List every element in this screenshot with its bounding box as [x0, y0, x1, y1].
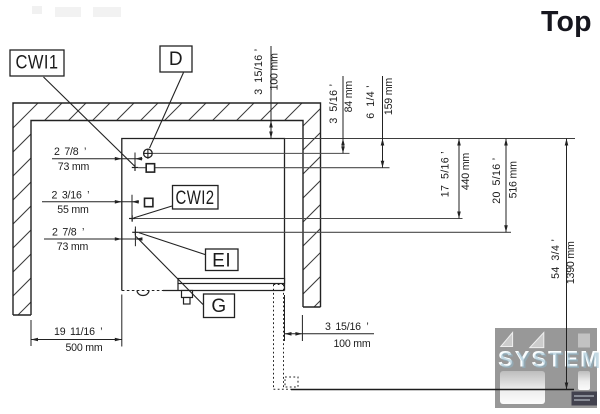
appliance foot bump: [137, 291, 149, 296]
svg-text:19 11/16 ’: 19 11/16 ’: [54, 326, 102, 338]
svg-text:440 mm: 440 mm: [460, 153, 472, 190]
dim 440mm vertical: [458, 139, 460, 219]
watermark triangle 1: [501, 333, 513, 347]
dim 1390mm vertical: [566, 139, 568, 390]
front bar left leg: [177, 284, 179, 291]
svg-text:CWI1: CWI1: [16, 53, 59, 74]
svg-text:CWI2: CWI2: [176, 188, 215, 209]
gas nozzle upper: [182, 291, 193, 298]
supply line L3 cwi1: [138, 167, 389, 169]
faint header marks: [32, 6, 121, 17]
dim 73mm top line: [52, 158, 143, 160]
svg-text:54 3/4 ’: 54 3/4 ’: [550, 239, 562, 279]
svg-text:2 7/8 ’: 2 7/8 ’: [54, 146, 86, 158]
svg-text:D: D: [169, 49, 183, 70]
plus mark EI: [132, 229, 138, 235]
svg-text:3 15/16 ’: 3 15/16 ’: [325, 321, 369, 333]
svg-text:55 mm: 55 mm: [57, 204, 89, 216]
label box EI: [206, 249, 239, 272]
dashed outlet box: [285, 377, 298, 387]
svg-text:73 mm: 73 mm: [58, 161, 90, 173]
svg-text:2 3/16 ’: 2 3/16 ’: [52, 189, 90, 201]
leader CWI2: [134, 206, 173, 218]
leader EI: [139, 233, 207, 255]
supply line L1 top reference: [285, 138, 576, 140]
dashed duct top: [274, 284, 284, 286]
dim 159mm vertical: [382, 76, 384, 168]
dashed duct left: [273, 285, 275, 390]
supply line L4 cwi2: [135, 218, 462, 220]
svg-text:100 mm: 100 mm: [333, 338, 370, 350]
dim 100mm bottom line: [285, 333, 375, 335]
plus mark CWI1: [132, 164, 138, 170]
svg-text:100 mm: 100 mm: [269, 53, 281, 90]
svg-text:84 mm: 84 mm: [343, 81, 355, 113]
svg-text:Top: Top: [541, 6, 592, 38]
extension line wall right 100: [301, 315, 303, 341]
supply line L5 ei: [139, 231, 511, 233]
svg-text:516 mm: 516 mm: [508, 161, 520, 198]
appliance body: [122, 139, 285, 291]
extension line at 73mm top: [134, 153, 136, 172]
dim 84mm vertical: [342, 76, 344, 153]
extension line wall inner 500: [30, 320, 32, 346]
leader G: [136, 237, 203, 305]
wall outer edge: [13, 103, 321, 315]
svg-text:159 mm: 159 mm: [383, 78, 395, 115]
watermark triangle 2: [530, 333, 544, 348]
plus mark CWI2: [129, 215, 135, 221]
dim 55mm line: [42, 201, 139, 203]
svg-text:2 7/8 ’: 2 7/8 ’: [52, 227, 84, 239]
leader CWI1: [44, 77, 136, 167]
svg-text:500 mm: 500 mm: [65, 342, 102, 354]
extension line appliance left 500: [121, 295, 123, 347]
dim 500mm line: [31, 339, 122, 341]
square symbol near CWI2: [145, 198, 153, 206]
watermark bottom bar right: [578, 371, 590, 390]
watermark dark badge: [572, 392, 598, 406]
drain symbol D circle: [144, 149, 153, 159]
appliance bottom edge solid part: [163, 290, 285, 292]
dim 73mm lower line: [44, 238, 143, 240]
svg-text:17 5/16 ’: 17 5/16 ’: [440, 151, 452, 197]
label box D: [160, 46, 192, 72]
dim 516mm vertical: [505, 139, 507, 233]
wall inner edge: [31, 121, 303, 316]
svg-text:G: G: [211, 296, 226, 317]
supply line L2 drain: [152, 152, 349, 154]
svg-text:3 5/16 ’: 3 5/16 ’: [328, 84, 340, 124]
leader D: [150, 73, 184, 149]
extension line at 73mm lower: [134, 227, 136, 247]
svg-text:SYSTEM: SYSTEM: [500, 348, 600, 373]
svg-text:1390 mm: 1390 mm: [565, 241, 577, 284]
bottom drain line L6: [291, 389, 574, 391]
svg-text:3 15/16 ’: 3 15/16 ’: [253, 49, 265, 95]
svg-text:6 1/4 ’: 6 1/4 ’: [365, 85, 377, 119]
watermark logo background: [495, 328, 600, 408]
wall left end cap: [13, 314, 31, 316]
appliance front bar: [178, 279, 285, 284]
wall right end cap: [303, 306, 321, 308]
square symbol near CWI1: [146, 164, 154, 172]
label box CWI1: [10, 50, 64, 76]
label box G: [204, 294, 235, 318]
dim 100mm top vertical: [270, 46, 272, 139]
extension line at 55mm: [131, 195, 133, 222]
dashed duct right: [283, 285, 285, 390]
svg-text:20 5/16 ’: 20 5/16 ’: [491, 158, 503, 204]
svg-text:73 mm: 73 mm: [57, 241, 89, 253]
appliance bottom edge dashed part: [122, 290, 163, 292]
watermark square: [578, 334, 590, 348]
extension line appliance right 100: [284, 295, 286, 341]
label box CWI2: [173, 186, 219, 210]
gas nozzle lower: [184, 298, 191, 305]
dashed duct bottom: [274, 388, 292, 390]
svg-text:EI: EI: [212, 251, 231, 272]
